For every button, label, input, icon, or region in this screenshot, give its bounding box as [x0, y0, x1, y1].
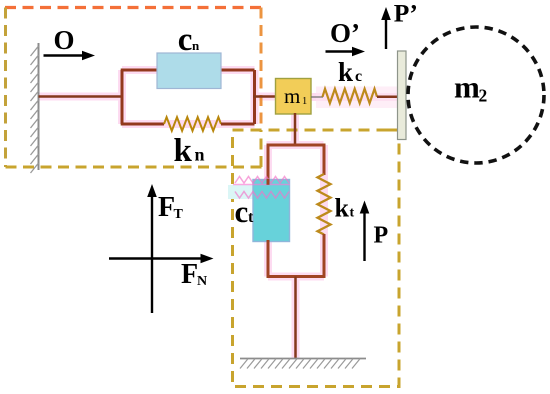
dashed group box top-left: bottom edge (gold) — [6, 130, 263, 167]
arrow P' — [385, 20, 387, 49]
svg-text:n: n — [192, 38, 200, 53]
wire right rail of parallel branch — [253, 70, 256, 124]
spring kt — [318, 174, 331, 235]
svg-text:c: c — [178, 22, 193, 58]
wire damper ct to bottom bar — [267, 240, 270, 278]
wire stub into damper ct over box — [267, 179, 270, 185]
svg-text:t: t — [350, 206, 355, 221]
svg-text:k: k — [338, 57, 353, 87]
svg-text:1: 1 — [302, 96, 307, 107]
svg-text:t: t — [248, 209, 254, 226]
wall hatching — [31, 46, 39, 173]
svg-text:2: 2 — [479, 86, 488, 106]
wire top bar to spring kt — [323, 144, 326, 176]
svg-text:m: m — [454, 70, 480, 105]
svg-text:k: k — [174, 133, 193, 169]
wire right rail to mass m1 — [253, 95, 276, 98]
svg-text:m: m — [284, 84, 300, 108]
ground line — [240, 358, 366, 360]
damper ct box — [253, 180, 290, 242]
pink halo under wires — [39, 70, 399, 359]
top bar of tangential parallel branch — [267, 144, 324, 147]
wire to damper ct — [267, 144, 270, 182]
magenta zigzag artifact above ct — [235, 177, 289, 184]
link m1 to spring kc — [311, 96, 323, 98]
mass m2 dashed circle — [408, 27, 544, 163]
damper cn box — [157, 53, 221, 89]
wire down to ground — [294, 277, 297, 359]
wire spring kt to bottom bar — [323, 234, 326, 278]
svg-text:n: n — [195, 145, 205, 165]
wire bottom branch left — [121, 123, 164, 126]
coordinate cross: FT axis (vertical) — [151, 195, 153, 313]
wire top branch to damper cn — [121, 69, 158, 72]
wall vertical line — [38, 43, 40, 170]
gold dash stub reaching bar — [388, 129, 398, 132]
spring kc — [323, 89, 378, 103]
arrow O — [44, 54, 85, 56]
svg-text:c: c — [355, 68, 362, 85]
wire spring kn to right rail — [221, 123, 255, 126]
spring kn — [164, 117, 221, 131]
dashed group box top-left: right edge (orange) — [260, 8, 263, 131]
bar between m1 chain and m2 — [398, 51, 407, 140]
mass m1 box — [276, 79, 312, 115]
wire spring kc to bar — [377, 96, 398, 99]
wire wall to node A — [39, 95, 123, 98]
wire damper cn to right rail — [220, 69, 255, 72]
svg-text:N: N — [197, 274, 207, 289]
dashed group box bottom (gold) — [233, 130, 400, 387]
svg-text:F: F — [181, 259, 198, 290]
wire m1 down to tangential branch — [294, 113, 297, 146]
svg-text:P: P — [374, 223, 389, 249]
light cyan band artifact left of ct — [228, 185, 254, 199]
svg-text:k: k — [335, 194, 350, 223]
dashed group box top-left: top edge (orange) — [5, 6, 261, 9]
arrow O' — [326, 50, 355, 52]
pink halo band behind spring kc — [316, 87, 398, 109]
svg-text:T: T — [174, 207, 184, 222]
bottom bar of tangential parallel branch — [268, 275, 324, 278]
svg-text:P’: P’ — [394, 0, 418, 27]
arrow P — [363, 212, 365, 261]
wire left rail of parallel branch — [121, 70, 124, 124]
ground hatching — [240, 359, 360, 369]
svg-text:c: c — [235, 194, 249, 229]
coordinate cross: FN axis (horizontal) — [109, 257, 202, 259]
svg-text:O’: O’ — [330, 18, 360, 48]
dashed group box top-left: left edge (gold) — [4, 8, 7, 168]
svg-text:O: O — [54, 25, 75, 55]
